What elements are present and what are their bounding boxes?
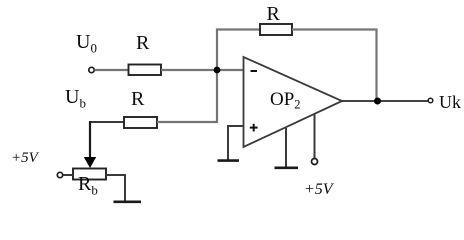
resistor R3: [124, 117, 157, 128]
svg-text:+5V: +5V: [304, 181, 335, 198]
wire: [106, 175, 125, 201]
node +5V supply pin terminal: [312, 159, 318, 165]
node A summing junction dot: [214, 67, 221, 74]
wire: [95, 69, 129, 71]
wire op-amp ground pin: [285, 128, 287, 167]
wiper arrow wire: [89, 121, 91, 158]
ground of op-amp: [275, 167, 299, 170]
node output terminal: [428, 98, 433, 103]
wire: [216, 28, 260, 30]
wire: [161, 69, 243, 71]
wire: [216, 29, 218, 71]
node output junction dot: [374, 98, 381, 105]
minus input marking: [251, 70, 258, 72]
wire: [89, 121, 124, 123]
wire output: [342, 100, 428, 102]
wire: [63, 174, 73, 176]
svg-text:Uk: Uk: [439, 92, 461, 112]
plus input marking: [250, 127, 258, 129]
resistor R1: [129, 65, 162, 76]
wire: [157, 121, 218, 123]
node U0 input terminal: [89, 67, 94, 72]
potentiometer Rb: [73, 169, 106, 180]
wire: [216, 70, 218, 122]
resistor R2 feedback: [260, 24, 292, 35]
ground of Rb: [114, 201, 142, 204]
wire op-amp supply pin: [314, 114, 316, 159]
op-amp OP2: [244, 57, 343, 147]
node +5V terminal left: [57, 172, 62, 177]
wire: [375, 29, 377, 102]
wiper arrowhead: [84, 157, 96, 168]
wire plus input: [228, 126, 243, 160]
wire: [292, 28, 378, 30]
svg-text:R: R: [267, 3, 281, 25]
svg-text:R: R: [131, 88, 145, 110]
svg-text:R: R: [136, 32, 150, 54]
svg-text:+5V: +5V: [11, 150, 40, 166]
ground of noninverting input: [218, 159, 240, 162]
